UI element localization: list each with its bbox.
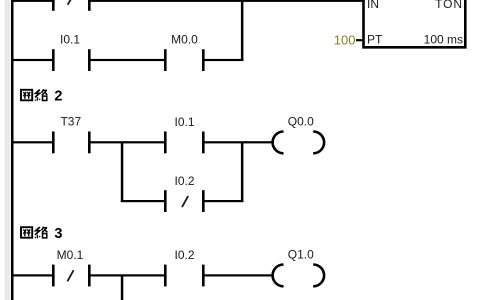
contact I0.2 (NC) right bar [202, 190, 205, 212]
wire: N1 row2 I0.1 to M0.0 [90, 59, 164, 61]
branch down junction N2 [121, 142, 124, 202]
junction: N1 merge vertical [241, 0, 244, 61]
svg-text:T37: T37 [60, 114, 81, 128]
wire: N2 row1 T37 to I0.1 [90, 141, 164, 143]
svg-text:IN: IN [367, 0, 379, 11]
left power rail [11, 0, 14, 300]
svg-text:Q1.0: Q1.0 [288, 248, 314, 262]
editor gutter strip [5, 0, 11, 300]
contact (NC, cut at top) left bar [52, 0, 55, 11]
network 3 title glyph 络 [35, 227, 47, 239]
coil Q0.0 left arc [273, 132, 284, 154]
wire: N3 I0.2 to coil [204, 274, 273, 276]
coil Q1.0 right arc [313, 265, 324, 287]
timer box U1 TON (top cut off) [364, 0, 466, 47]
branch down junction N3 [121, 275, 124, 300]
contact I0.2 left bar (network 3) [164, 265, 167, 287]
wire: N1 row1 rail to contact [12, 0, 52, 2]
svg-text:TON: TON [435, 0, 463, 11]
contact I0.1 right bar (network 2) [202, 132, 205, 154]
svg-text:I0.2: I0.2 [174, 248, 194, 262]
contact I0.2 right bar (network 3) [202, 265, 205, 287]
svg-text:I0.1: I0.1 [60, 33, 80, 47]
NC slash I0.2 [182, 196, 188, 207]
wire: N2 row2 branch to I0.2 [121, 200, 164, 202]
contact M0.1 (NC) right bar [88, 265, 91, 287]
branch up junction N2 [241, 142, 244, 202]
contact I0.1 left bar (network 2) [164, 132, 167, 154]
network 3 title glyph 网 [21, 227, 32, 238]
NC slash M0.1 [67, 270, 73, 281]
svg-text:3: 3 [54, 226, 62, 242]
svg-text:Q0.0: Q0.0 [288, 114, 314, 128]
network 2 title glyph 络 [35, 89, 47, 101]
svg-text:2: 2 [54, 89, 62, 105]
svg-text:M0.0: M0.0 [171, 33, 198, 47]
NC slash (cut at top) [68, 0, 72, 5]
svg-text:100: 100 [334, 33, 356, 48]
svg-text:100 ms: 100 ms [424, 33, 463, 47]
contact M0.0 left bar [164, 49, 167, 71]
contact I0.1 left bar [52, 49, 55, 71]
network 2 title glyph 网 [21, 90, 32, 101]
coil Q0.0 right arc [313, 132, 324, 154]
wire: N2 row1 I0.1 to coil [204, 141, 273, 143]
wire: N2 row2 I0.2 to up-junction [204, 200, 243, 202]
svg-text:I0.1: I0.1 [174, 115, 194, 129]
wire: N1 row2 rail to I0.1 [12, 59, 52, 61]
contact M0.1 (NC) left bar [52, 265, 55, 287]
wire: N3 M0.1 to I0.2 [90, 274, 164, 276]
wire: N1 row1 contact to TON box [90, 0, 363, 2]
svg-text:PT: PT [367, 33, 383, 47]
contact I0.1 right bar [88, 49, 91, 71]
coil Q1.0 left arc [273, 265, 284, 287]
wire: N2 row1 rail to T37 [12, 141, 52, 143]
PT pin tick [356, 39, 363, 41]
svg-text:M0.1: M0.1 [57, 248, 84, 262]
contact I0.2 (NC) left bar [164, 190, 167, 212]
contact T37 left bar [52, 132, 55, 154]
wire: N1 row2 M0.0 to junction [204, 59, 243, 61]
wire: N3 rail to M0.1 [12, 274, 52, 276]
svg-text:I0.2: I0.2 [174, 174, 194, 188]
contact M0.0 right bar [202, 49, 205, 71]
contact (NC, cut at top) right bar [88, 0, 91, 11]
contact T37 right bar [88, 132, 91, 154]
